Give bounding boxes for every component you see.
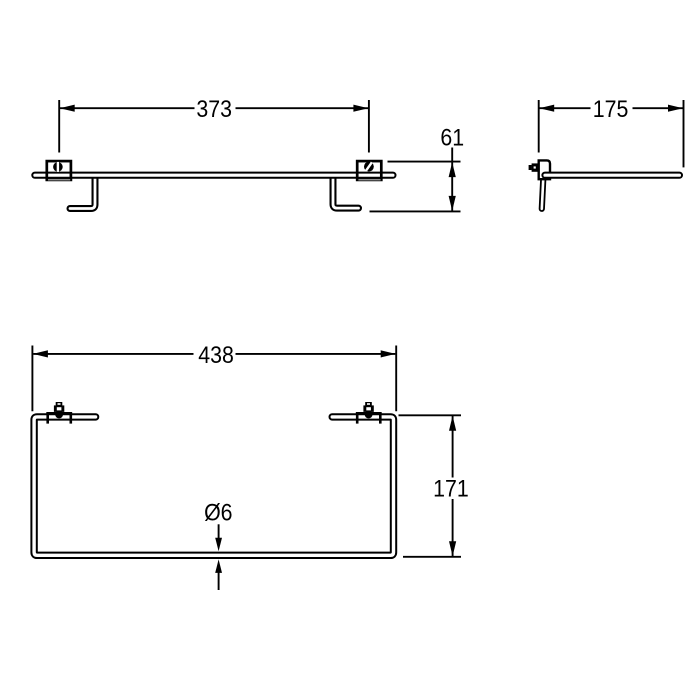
right bracket (plan view): screw tip — [365, 402, 372, 406]
hook rod (side view) — [542, 178, 544, 209]
left bracket (plan view): clamp bar — [46, 412, 72, 414]
right bracket (plan view): clamp bar — [356, 412, 382, 414]
dimension 373: right arrowhead — [353, 105, 368, 112]
right bracket clamp shadow sliver — [358, 179, 380, 181]
dimension 61: dimension line (vertical shaft) — [451, 148, 453, 211]
dimension 61: top arrowhead — [449, 162, 456, 177]
dimension 171: top extension line — [399, 414, 462, 416]
screw head (side view) — [532, 163, 538, 171]
dimension 171: bottom arrowhead — [449, 541, 456, 556]
svg-text:373: 373 — [196, 95, 232, 122]
dimension 373: right extension line — [368, 100, 370, 153]
svg-text:Ø6: Ø6 — [204, 498, 232, 525]
dimension 61: bottom extension line — [370, 210, 461, 212]
dimension 438: dimension line left segment — [33, 353, 193, 355]
wall bracket plate (side view) — [539, 160, 550, 179]
dimension 61: bottom arrowhead — [449, 196, 456, 211]
dimension 175: left arrowhead — [539, 105, 554, 112]
shelf rod (side view, capsule) — [542, 173, 682, 178]
right bracket (plan view): right clamp leg — [379, 412, 382, 424]
right hook (bent rod end, front view) — [333, 176, 359, 208]
dimension Ø6: lower leader shaft — [218, 572, 220, 590]
dimension 438: left extension line — [31, 346, 33, 412]
dimension 373: left arrowhead — [60, 105, 75, 112]
dimension 373: left extension line — [58, 100, 60, 153]
left bracket (plan view): right clamp leg — [70, 412, 73, 424]
dimension 438: left arrowhead — [33, 350, 48, 357]
dimension 171: top arrowhead — [449, 416, 456, 431]
dimension 373: dimension line right segment — [236, 107, 369, 109]
svg-text:175: 175 — [593, 95, 629, 122]
dimension 175: left extension line — [538, 100, 540, 153]
dimension Ø6: upper arrowhead (pointing down) — [215, 538, 222, 552]
dimension 175: right arrowhead — [668, 105, 683, 112]
left bracket (plan view): screw shank ring — [55, 411, 63, 419]
dimension Ø6: lower arrowhead (pointing up) — [215, 559, 222, 573]
dimension 171: dimension line lower segment — [452, 499, 454, 556]
left bracket (plan view): left clamp leg — [46, 412, 49, 424]
svg-text:61: 61 — [440, 123, 464, 150]
left hook (bent rod end, front view) — [70, 176, 95, 209]
right bracket screw (slotted, front) — [364, 162, 374, 172]
svg-text:171: 171 — [433, 474, 469, 501]
left bracket screw (slotted, front) — [53, 162, 63, 172]
dimension 175: dimension line right segment — [633, 107, 684, 109]
dimension 438: right arrowhead — [381, 350, 396, 357]
dimension 171: dimension line upper segment — [452, 416, 454, 478]
dimension 373: dimension line left segment — [60, 107, 195, 109]
dimension 171: bottom extension line — [403, 556, 461, 558]
bent rod frame (plan view) — [34, 417, 393, 555]
left bracket clamp shadow sliver — [48, 179, 70, 181]
dimension 175: dimension line left segment — [539, 107, 590, 109]
svg-text:438: 438 — [198, 341, 234, 368]
right bracket (plan view): screw shank ring — [365, 411, 373, 419]
left bracket (plan view): screw tip — [56, 402, 63, 406]
dimension 438: dimension line right segment — [236, 353, 396, 355]
dimension 438: right extension line — [395, 346, 397, 412]
dimension 61: top extension line — [388, 161, 461, 163]
right bracket (plan view): left clamp leg — [356, 412, 359, 424]
dimension 175: right extension line — [683, 100, 685, 167]
left bracket (plan view): screw hex body — [54, 405, 64, 412]
right bracket (plan view): screw hex body — [363, 405, 373, 412]
right bracket body (front view) — [357, 161, 381, 180]
dimension Ø6: upper leader shaft — [218, 524, 220, 539]
rail bar (front view, capsule) — [32, 173, 395, 178]
left bracket body (front view) — [47, 161, 71, 180]
